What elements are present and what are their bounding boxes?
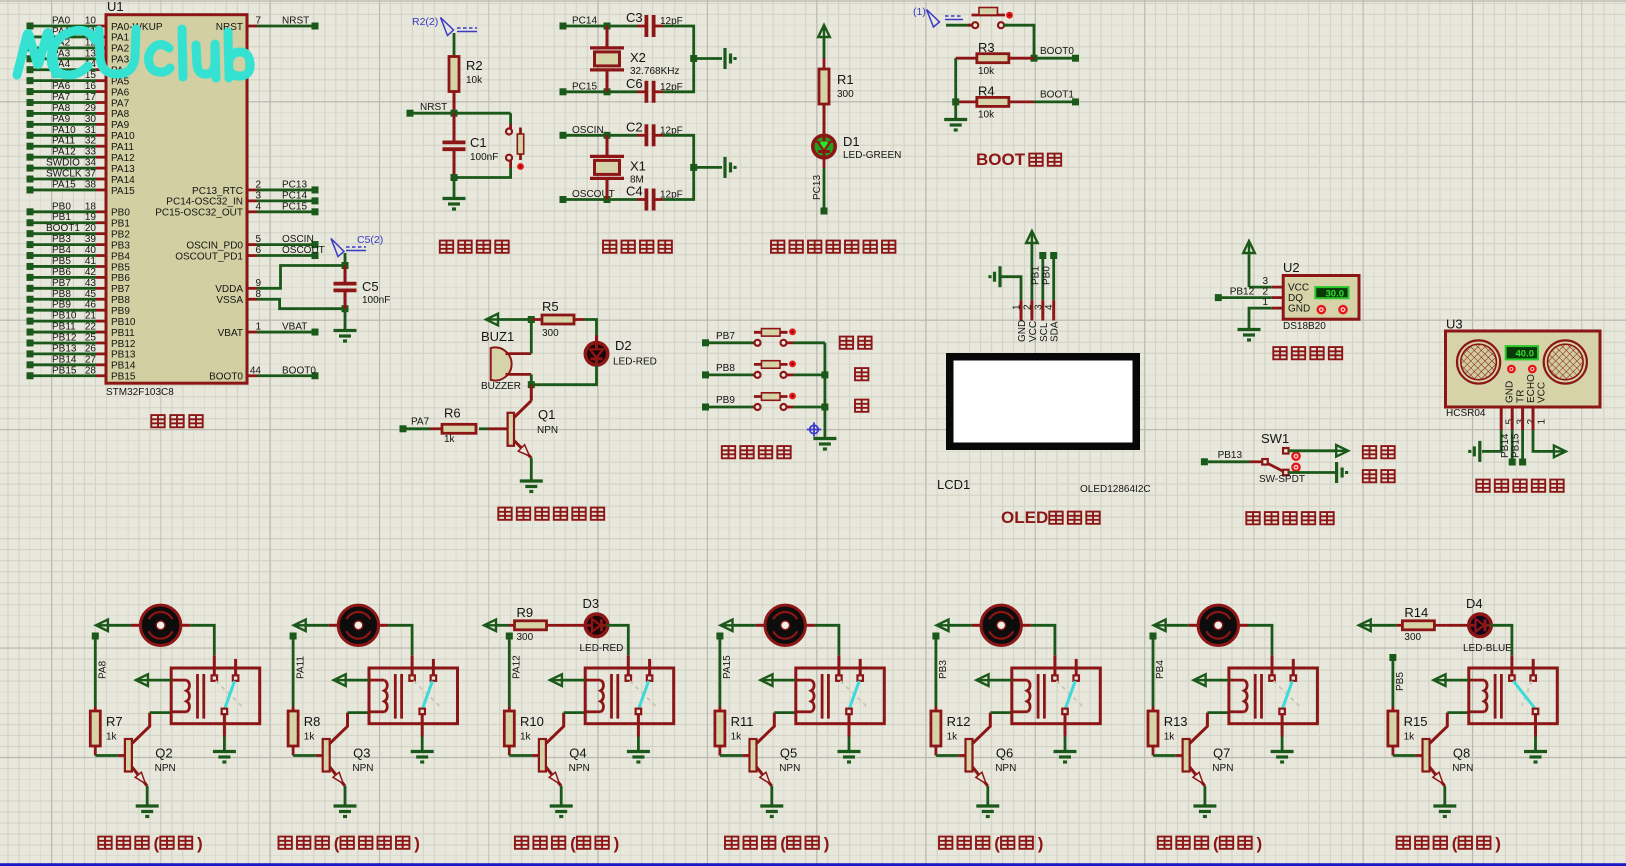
wire motor to relay [1031, 625, 1055, 655]
svg-text:300: 300 [837, 89, 854, 100]
relay block title [515, 837, 565, 849]
terminal PB8 [702, 371, 709, 378]
U3 adjust markers [1508, 366, 1514, 372]
ground left of U3 [1478, 441, 1481, 462]
svg-text:(: ( [154, 834, 160, 853]
U1 left pin PA9 (pin 30) wire [27, 121, 34, 128]
relay core bars [1254, 674, 1257, 719]
svg-text:PA6: PA6 [111, 87, 130, 98]
ultrasonic module U3 HCSR04 body [1446, 331, 1601, 407]
wire BOOT0 to terminal [1034, 57, 1072, 60]
svg-text:1k: 1k [106, 732, 118, 743]
svg-text:PB3: PB3 [52, 234, 71, 245]
wire C2 to right rail [663, 135, 694, 167]
resistor R11 1k [719, 707, 722, 712]
label guanbi (closed) [1363, 470, 1395, 482]
power arrow left of motor (Q5 block) [721, 620, 733, 632]
svg-text:PA12: PA12 [111, 153, 135, 164]
svg-text:R11: R11 [731, 714, 754, 729]
wire motor to relay [388, 625, 412, 655]
svg-text:BOOT0: BOOT0 [282, 365, 316, 376]
svg-text:(: ( [570, 834, 576, 853]
wire relay output to ground [637, 714, 640, 736]
main MCU U1 STM32F103C8 body [106, 15, 247, 384]
wire buzzer top to R5 node [530, 320, 533, 354]
red actuator dot PB8 [789, 361, 796, 368]
svg-text:OSCOUT_PD1: OSCOUT_PD1 [175, 251, 243, 262]
relay core bars [610, 674, 613, 719]
wire C1 bottom to button [454, 168, 511, 178]
wire and terminal NRST [257, 25, 312, 28]
wire and terminal BOOT0 [257, 374, 312, 377]
svg-text:39: 39 [85, 234, 97, 245]
svg-text:U1: U1 [107, 0, 124, 14]
svg-text:R7: R7 [106, 714, 123, 729]
svg-text:DS18B20: DS18B20 [1283, 321, 1326, 332]
U1 right pin OSCIN_PD0 (pin 5) [247, 243, 257, 246]
svg-text:SW1: SW1 [1261, 431, 1289, 446]
SW1 up/down markers [1292, 453, 1299, 460]
wire Q3 collector to relay coil [348, 711, 370, 714]
power arrow left of R9 [484, 620, 496, 632]
power arrow left of R14 [1359, 620, 1371, 632]
svg-text:VBAT: VBAT [218, 328, 243, 339]
svg-text:8M: 8M [630, 174, 644, 185]
svg-text:D3: D3 [583, 596, 600, 611]
wire motor to relay [1248, 625, 1272, 655]
power arrow left of motor (Q7 block) [1154, 620, 1166, 632]
wire and terminal PC15 [257, 210, 312, 213]
svg-text:PA14: PA14 [111, 175, 135, 186]
transistor Q4 NPN [539, 739, 546, 772]
svg-text:DQ: DQ [1288, 293, 1303, 304]
svg-text:PA15: PA15 [52, 179, 76, 190]
wire Q6 emitter to ground [986, 786, 989, 805]
svg-text:R2(2): R2(2) [412, 16, 438, 28]
wire PB4 to R13 [1152, 639, 1155, 707]
svg-text:1: 1 [1012, 304, 1023, 310]
svg-text:VCC: VCC [1028, 321, 1039, 342]
wire Q5 collector to relay coil [774, 711, 796, 714]
svg-text:PA6: PA6 [52, 81, 71, 92]
relay box (Q8 block) [1469, 668, 1558, 724]
svg-text:PB8: PB8 [52, 289, 71, 300]
svg-text:PC14: PC14 [282, 190, 307, 201]
U1 left pin PA7 (pin 17) wire [27, 99, 34, 106]
svg-text:27: 27 [85, 354, 97, 365]
svg-text:PA12: PA12 [52, 147, 76, 158]
node bus PB8 junction [821, 371, 828, 378]
svg-text:Q2: Q2 [155, 746, 172, 761]
svg-text:42: 42 [85, 267, 97, 278]
svg-text:GND: GND [1017, 320, 1028, 342]
svg-text:NPN: NPN [537, 425, 558, 436]
power arrow above OLED VCC [1026, 231, 1038, 243]
svg-text:3: 3 [1262, 276, 1268, 287]
wire R7 to Q2 base [95, 754, 118, 757]
push button BOOT [968, 24, 973, 27]
svg-text:PB5: PB5 [111, 262, 130, 273]
svg-text:22: 22 [85, 322, 97, 333]
svg-text:SDA: SDA [1050, 321, 1061, 342]
relay box (Q4 block) [585, 668, 674, 724]
relay blade ghost line [1522, 681, 1532, 706]
svg-text:PB12: PB12 [52, 332, 77, 343]
svg-text:OSCOUT: OSCOUT [282, 245, 325, 256]
U1 left pin PB5 (pin 41) wire [27, 263, 34, 270]
wire OSCOUT row [566, 198, 637, 201]
svg-text:SWDIO: SWDIO [46, 158, 80, 169]
node rail R4 junction [952, 98, 959, 105]
relay core bars [394, 674, 397, 719]
relay switch blade (cyan) [849, 681, 859, 709]
capacitor C5 100nF [344, 266, 347, 284]
wire R3/R4 left rail [954, 58, 957, 119]
svg-text:PB10: PB10 [52, 311, 77, 322]
svg-text:R12: R12 [947, 714, 971, 729]
relay blade ghost line [414, 681, 440, 706]
terminal PA11 [290, 633, 297, 640]
terminal PA7 [400, 425, 407, 432]
svg-text:PB9: PB9 [716, 395, 735, 406]
resistor R9 300 [497, 624, 509, 627]
wire BOOT1 to terminal [1034, 101, 1072, 104]
title cewen mokuai (temperature module) [1273, 347, 1342, 359]
svg-text:PA12: PA12 [512, 655, 523, 679]
svg-text:32.768KHz: 32.768KHz [630, 66, 679, 77]
crystal X2 32.768KHz [606, 26, 609, 48]
svg-text:C3: C3 [626, 10, 643, 25]
svg-text:): ) [1257, 834, 1263, 853]
capacitor C1 100nF [453, 113, 456, 142]
svg-text:2: 2 [1022, 304, 1033, 310]
power arrow above R1 [818, 25, 830, 37]
node BOOT0 junction [1031, 55, 1038, 62]
svg-text:Q6: Q6 [996, 746, 1013, 761]
svg-text:PB4: PB4 [1155, 660, 1166, 679]
svg-text:PB0: PB0 [111, 208, 130, 219]
U1 left pin PB12 (pin 25) wire [27, 339, 34, 346]
ground right of rail [723, 48, 726, 69]
svg-text:30.0: 30.0 [1326, 288, 1345, 299]
wire Q2 collector to relay coil [150, 711, 172, 714]
svg-text:): ) [1495, 834, 1501, 853]
title shengguang baojing dianlu (alarm circuit) [498, 508, 604, 520]
svg-text:NPN: NPN [995, 763, 1016, 774]
relay common pin [411, 655, 414, 675]
svg-text:PA2: PA2 [111, 44, 130, 55]
U1 left pin PA0 (pin 10) wire [27, 23, 34, 30]
red actuator dot PB7 [789, 328, 796, 335]
svg-text:PB7: PB7 [716, 331, 735, 342]
svg-text:3: 3 [1033, 304, 1044, 310]
svg-text:R3: R3 [978, 40, 995, 55]
svg-text:C2: C2 [626, 119, 643, 134]
U1 left pin PA6 (pin 16) wire [27, 88, 34, 95]
wire D4 to relay [1490, 625, 1512, 655]
svg-text:PB13: PB13 [52, 343, 77, 354]
transistor Q6 NPN [966, 739, 973, 772]
wire VCC to R2 [453, 33, 456, 57]
svg-text:LED-RED: LED-RED [580, 643, 624, 654]
svg-text:Q1: Q1 [538, 407, 555, 422]
U1 left pin PA4 (pin 14) wire [27, 66, 34, 73]
power arrow left of relay coil [136, 674, 148, 686]
title chaoshengbo mokuai (ultrasonic module) [1476, 480, 1563, 492]
terminal PC14 [560, 23, 567, 30]
U1 left pin PB13 (pin 26) wire [27, 350, 34, 357]
svg-text:30: 30 [85, 114, 97, 125]
svg-text:PB6: PB6 [111, 273, 130, 284]
push button PB8 [753, 373, 755, 376]
svg-text:(: ( [334, 834, 340, 853]
svg-text:PB0: PB0 [52, 201, 71, 212]
svg-text:16: 16 [85, 81, 97, 92]
node C1 bottom junction [451, 174, 458, 181]
svg-text:PB6: PB6 [52, 267, 71, 278]
svg-text:Q4: Q4 [569, 746, 586, 761]
ground below relay [838, 750, 861, 753]
svg-text:PB15: PB15 [111, 372, 136, 383]
svg-text:18: 18 [85, 201, 97, 212]
U1 right pin OSCOUT_PD1 (pin 6) [247, 254, 257, 257]
svg-text:13: 13 [85, 48, 97, 59]
svg-text:VBAT: VBAT [282, 322, 307, 333]
svg-text:R4: R4 [978, 84, 995, 99]
wire and terminal PC14 [257, 199, 312, 202]
relay core bars [821, 674, 824, 719]
title menzhuangtai jiance (door state detection) [1246, 512, 1333, 524]
wire NRST node [413, 112, 511, 115]
svg-text:PA11: PA11 [295, 656, 306, 679]
U1 left pin PB14 (pin 27) wire [27, 361, 34, 368]
svg-text:32: 32 [85, 136, 97, 147]
relay common pin [1271, 655, 1274, 675]
transistor Q2 NPN [125, 739, 132, 772]
svg-text:LED-RED: LED-RED [613, 357, 657, 368]
ground below Q4 [550, 804, 573, 807]
wire Q8 collector to relay coil [1447, 711, 1469, 714]
svg-text:NPN: NPN [1212, 763, 1233, 774]
svg-text:10k: 10k [978, 66, 995, 77]
terminal PB14 [1509, 459, 1516, 466]
svg-text:U2: U2 [1283, 260, 1300, 275]
wire R10 to Q4 base [509, 754, 532, 757]
svg-text:10k: 10k [466, 75, 483, 86]
ground right of SW1 [1335, 462, 1338, 483]
ground below relay [1054, 750, 1077, 753]
U1 left pin PB8 (pin 45) wire [27, 296, 34, 303]
red actuator dot BOOT button [1006, 12, 1013, 19]
ground below Q8 [1433, 804, 1456, 807]
svg-text:X2: X2 [630, 50, 646, 65]
svg-text:31: 31 [85, 125, 97, 136]
svg-text:): ) [614, 834, 620, 853]
relay coil [796, 679, 811, 682]
node NRST junction [451, 110, 458, 117]
svg-text:1k: 1k [1404, 732, 1416, 743]
node C5 bottom junction [342, 305, 349, 312]
relay switch blade (cyan) [1513, 681, 1535, 709]
svg-text:41: 41 [85, 256, 97, 267]
wire R5 to D2 [584, 320, 597, 336]
ground below Q3 [334, 804, 357, 807]
svg-text:OSCIN_PD0: OSCIN_PD0 [186, 240, 243, 251]
LED D2 LED-RED [595, 336, 598, 343]
svg-text:): ) [824, 834, 830, 853]
keys bus wire [824, 343, 827, 438]
terminal BOOT1 [1072, 98, 1079, 105]
power arrow left of motor (Q6 block) [937, 620, 949, 632]
terminal OSCOUT [560, 196, 567, 203]
wire C1 to ground [453, 181, 456, 198]
terminal PB15 [1519, 459, 1526, 466]
svg-text:(: ( [994, 834, 1000, 853]
svg-text:PB7: PB7 [111, 284, 130, 295]
svg-text:PB15: PB15 [1511, 433, 1522, 458]
relay NO pin [432, 659, 435, 675]
svg-text:R15: R15 [1404, 714, 1428, 729]
relay blade ghost line [630, 681, 656, 706]
wire motor to relay [190, 625, 214, 655]
ground below U2 [1238, 328, 1261, 331]
svg-text:43: 43 [85, 278, 97, 289]
svg-text:NRST: NRST [282, 16, 309, 27]
svg-text:C5(2): C5(2) [357, 234, 383, 246]
svg-text:PB7: PB7 [52, 278, 71, 289]
svg-text:VCC: VCC [1288, 283, 1309, 294]
relay blade ghost line [216, 681, 242, 706]
wire PB7 to button [709, 341, 753, 344]
resistor R8 1k [292, 707, 295, 712]
wire D1 to PC13 terminal [823, 168, 826, 208]
relay box (Q2 block) [171, 668, 260, 724]
svg-text:PB8: PB8 [716, 363, 735, 374]
capacitor C6 12pF [637, 90, 647, 93]
svg-text:): ) [1038, 834, 1044, 853]
svg-text:19: 19 [85, 212, 97, 223]
ground below Q5 [760, 804, 783, 807]
svg-text:R6: R6 [444, 406, 461, 421]
relay blade ghost line [1056, 681, 1082, 706]
U1 left pin PA2 (pin 12) wire [27, 44, 34, 51]
svg-text:PB1: PB1 [52, 212, 71, 223]
svg-text:PA9: PA9 [52, 114, 71, 125]
ground right of rail [723, 157, 726, 178]
OLED pin 2 stub VCC [1030, 300, 1033, 320]
relay box (Q6 block) [1012, 668, 1101, 724]
U1 left pin PB4 (pin 40) wire [27, 252, 34, 259]
terminal PA15 [716, 633, 723, 640]
svg-text:PB11: PB11 [111, 328, 135, 339]
ground below relay [411, 750, 434, 753]
relay coil [171, 679, 186, 682]
resistor R10 1k [508, 707, 511, 712]
svg-text:(: ( [1452, 834, 1458, 853]
svg-text:SWCLK: SWCLK [46, 169, 82, 180]
wire ECHO to PB15 terminal [1521, 430, 1524, 459]
relay block title [279, 837, 329, 849]
capacitor C3 12pF [637, 25, 647, 28]
transistor Q3 NPN [323, 739, 330, 772]
ground below keys bus [813, 437, 836, 440]
svg-text:TR: TR [1516, 390, 1527, 403]
node R5 junction [528, 316, 535, 323]
relay block title [1158, 837, 1208, 849]
svg-text:1: 1 [1537, 419, 1548, 425]
svg-text:BOOT0: BOOT0 [209, 372, 243, 383]
wire R11 to Q5 base [720, 754, 743, 757]
terminal PB12 [1215, 294, 1222, 301]
U1 left pin PA5 (pin 15) wire [27, 77, 34, 84]
relay NO pin [1532, 659, 1535, 675]
svg-text:C4: C4 [626, 184, 643, 199]
relay switch blade (cyan) [225, 681, 235, 709]
svg-text:SCL: SCL [1039, 322, 1050, 342]
relay output contact [1533, 709, 1539, 715]
svg-text:PB14: PB14 [52, 354, 77, 365]
svg-text:OLED12864I2C: OLED12864I2C [1080, 484, 1151, 495]
svg-text:38: 38 [85, 179, 97, 190]
svg-text:X1: X1 [630, 158, 646, 173]
svg-text:): ) [414, 834, 420, 853]
terminal PB9 [702, 404, 709, 411]
resistor R7 1k [94, 707, 97, 712]
wire PB8 button to bus [794, 373, 825, 376]
relay box (Q5 block) [796, 668, 885, 724]
svg-text:1k: 1k [444, 434, 456, 445]
svg-text:GND: GND [1505, 381, 1516, 403]
push button reset [509, 124, 512, 129]
svg-text:PA8: PA8 [111, 109, 130, 120]
wire and terminal PC13 [257, 189, 312, 192]
wire SDA to PB0 terminal [1052, 258, 1055, 300]
svg-text:PB10: PB10 [111, 317, 136, 328]
resistor R5 300 [531, 318, 542, 321]
svg-text:PC15: PC15 [282, 201, 307, 212]
terminal NRST [407, 110, 414, 117]
terminal PB1 [1039, 252, 1046, 259]
power arrow left of relay coil [550, 674, 562, 686]
relay block title [98, 837, 148, 849]
wire buzzer bottom to node [530, 374, 533, 384]
wire and terminal OSCOUT [257, 254, 312, 257]
wire PC15 row [566, 90, 637, 93]
svg-text:Q7: Q7 [1213, 746, 1230, 761]
terminal PB0 [1050, 252, 1057, 259]
relay common pin [1053, 655, 1056, 675]
svg-text:PA0: PA0 [52, 16, 71, 27]
wire VDDA to C5 top [257, 266, 345, 289]
power arrow left of relay coil [1194, 674, 1206, 686]
terminal PB7 [702, 339, 709, 346]
svg-text:LED-BLUE: LED-BLUE [1463, 643, 1512, 654]
wire PB3 to R12 [935, 639, 938, 707]
svg-text:PB8: PB8 [111, 295, 130, 306]
transistor Q8 NPN [1423, 739, 1430, 772]
terminal PB5 [1389, 654, 1396, 661]
relay coil [369, 679, 384, 682]
push button PB9 [753, 406, 755, 409]
svg-text:1k: 1k [1164, 732, 1176, 743]
relay switch blade (cyan) [1283, 681, 1293, 709]
resistor R14 300 [1372, 624, 1397, 627]
svg-text:PA10: PA10 [52, 125, 76, 136]
relay switch blade (cyan) [639, 681, 649, 709]
node alarm bottom junction [528, 381, 535, 388]
svg-text:PB12: PB12 [111, 339, 136, 350]
svg-text:BOOT1: BOOT1 [46, 223, 80, 234]
